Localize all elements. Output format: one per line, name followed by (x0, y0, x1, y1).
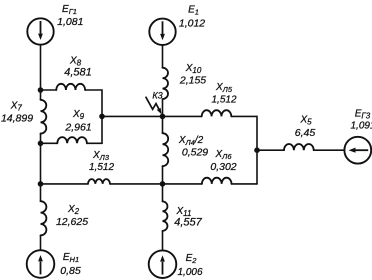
svg-text:EГ1: EГ1 (62, 4, 77, 16)
svg-text:XЛ6: XЛ6 (215, 149, 233, 161)
svg-text:К3: К3 (152, 90, 162, 100)
svg-text:2,961: 2,961 (64, 121, 91, 133)
svg-text:12,625: 12,625 (56, 216, 88, 228)
svg-text:X9: X9 (72, 109, 85, 121)
svg-text:14,899: 14,899 (1, 113, 33, 125)
svg-text:X8: X8 (69, 56, 82, 68)
svg-text:X2: X2 (67, 204, 80, 216)
svg-text:XЛ3: XЛ3 (92, 150, 110, 162)
svg-text:6,45: 6,45 (295, 127, 316, 139)
svg-text:4,557: 4,557 (174, 217, 202, 229)
svg-text:X5: X5 (299, 115, 312, 127)
svg-text:0,85: 0,85 (60, 265, 81, 277)
svg-text:1,512: 1,512 (211, 95, 236, 106)
svg-text:1,091: 1,091 (350, 121, 372, 132)
svg-text:1,012: 1,012 (179, 18, 205, 30)
svg-text:2,155: 2,155 (179, 74, 206, 86)
svg-text:EН1: EН1 (63, 252, 79, 264)
svg-text:X7: X7 (10, 101, 23, 113)
svg-text:0,529: 0,529 (182, 147, 208, 159)
svg-text:EГ3: EГ3 (355, 109, 371, 121)
svg-text:XЛ5: XЛ5 (215, 82, 233, 94)
svg-text:1,081: 1,081 (57, 16, 83, 28)
svg-text:1,512: 1,512 (89, 162, 114, 173)
svg-text:E2: E2 (186, 253, 198, 265)
svg-text:4,581: 4,581 (64, 67, 92, 79)
svg-text:X10: X10 (185, 63, 202, 75)
svg-text:XЛ4/2: XЛ4/2 (178, 135, 204, 147)
svg-text:0,302: 0,302 (210, 161, 236, 173)
svg-text:E1: E1 (188, 5, 199, 17)
svg-text:1,006: 1,006 (177, 267, 202, 278)
